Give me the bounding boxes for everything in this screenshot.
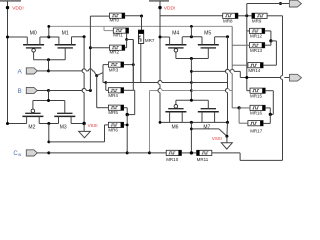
wire MR11.right to bus xyxy=(212,153,283,161)
port B xyxy=(26,87,37,93)
svg-text:MR9: MR9 xyxy=(252,19,262,24)
wire MR16.right chain xyxy=(265,108,272,116)
label MR14 xyxy=(248,68,261,73)
wire node to MR6 xyxy=(49,125,109,142)
svg-text:MR10: MR10 xyxy=(166,157,179,162)
svg-text:M6: M6 xyxy=(172,124,179,130)
transistor M0 (PMOS) xyxy=(23,37,44,60)
wire net G y=71.4 xyxy=(191,69,246,77)
label MR3 xyxy=(109,68,119,73)
label MR17 xyxy=(250,128,263,133)
svg-text:MR14: MR14 xyxy=(248,68,261,73)
transistor M4 (PMOS) xyxy=(165,37,186,59)
svg-text:M0: M0 xyxy=(30,30,37,36)
wire top rail stub left xyxy=(0,0,21,2)
memristor MR3 xyxy=(108,62,123,67)
wire M3.drain to VSS xyxy=(71,122,86,125)
memristor MR17 xyxy=(248,121,263,126)
transistor M3 xyxy=(54,101,75,124)
wire riser x=232.2 xyxy=(230,26,239,108)
label MR16 xyxy=(250,111,263,116)
svg-text:MR11: MR11 xyxy=(197,157,209,162)
svg-text:VDD!: VDD! xyxy=(12,6,23,12)
svg-text:MR5: MR5 xyxy=(108,110,118,115)
label MR0 xyxy=(110,18,120,23)
wire VDD to M4 source xyxy=(159,36,170,39)
memristor MR6 xyxy=(108,122,123,127)
wire M0.drain-M1.source staple xyxy=(40,26,59,38)
ground symbol left xyxy=(79,124,91,138)
wire M5.drain to V-right xyxy=(215,35,229,38)
node VDD! junction left xyxy=(6,6,9,9)
wire M5 drain vertical x=227.5 xyxy=(226,37,228,123)
svg-text:MR16: MR16 xyxy=(250,111,263,116)
node VDD! junction middle xyxy=(158,6,161,9)
memristor MR4 xyxy=(108,88,123,93)
wire input A xyxy=(37,69,98,77)
svg-text:MR6: MR6 xyxy=(108,127,118,132)
wire MR14 feed xyxy=(232,64,248,66)
wire MR17.right chain xyxy=(263,114,270,123)
memristor MR0 xyxy=(110,13,125,18)
wire VDD to M0 source xyxy=(6,36,27,39)
wire MR12.right chain xyxy=(265,31,273,43)
memristor MR16 xyxy=(250,105,265,110)
label M6 xyxy=(172,124,179,130)
svg-text:MR7: MR7 xyxy=(145,38,155,43)
wire M2.source to rail xyxy=(6,122,27,125)
node MR8/MR9 junction xyxy=(238,14,252,17)
label M4 xyxy=(172,30,179,36)
wire input CIN xyxy=(37,151,166,154)
svg-text:A: A xyxy=(17,68,22,75)
transistor M7 xyxy=(198,100,219,122)
net label VSS! left xyxy=(88,123,98,128)
wire MR7 bottom x=140.8 xyxy=(140,44,142,83)
port output 2 xyxy=(290,74,302,81)
svg-text:M4: M4 xyxy=(172,30,179,36)
wire node V2 vertical x=90.4 xyxy=(90,16,109,90)
ground symbol middle xyxy=(221,122,232,149)
wire A to MR3 riser xyxy=(97,65,109,83)
label M1 xyxy=(62,30,69,36)
label MR13 xyxy=(250,48,263,53)
node V2-MR2 junction xyxy=(89,46,110,49)
svg-text:MR0: MR0 xyxy=(110,18,120,23)
transistor M1 xyxy=(55,37,76,60)
wire VDD to MR8 xyxy=(160,15,223,17)
memristor MR14 xyxy=(248,63,263,68)
wire M2/M3 gate tie xyxy=(33,99,65,102)
wire A to MR5 riser xyxy=(97,76,109,108)
memristor MR1 xyxy=(113,28,128,33)
svg-text:MR12: MR12 xyxy=(250,34,263,39)
label M3 xyxy=(60,125,67,131)
label M7 xyxy=(203,124,210,130)
memristor MR11 xyxy=(197,150,212,155)
transistor M6 (PMOS) xyxy=(165,100,186,122)
svg-text:MR13: MR13 xyxy=(250,48,263,53)
svg-text:MR3: MR3 xyxy=(109,68,119,73)
port output 1 xyxy=(289,0,301,7)
wire output line y=77.5 xyxy=(245,76,289,79)
wire MR12-14 link xyxy=(263,41,276,65)
label MR11 xyxy=(197,157,209,162)
label M5 xyxy=(204,30,211,36)
wire net C y=90.5 east xyxy=(150,89,233,92)
label MR15 xyxy=(250,93,263,98)
wire M4/M5 gate tie xyxy=(176,57,208,60)
wire MR13 feed xyxy=(232,44,249,46)
wire M6/M7 gate tie xyxy=(176,99,208,102)
net label VDD! left xyxy=(12,6,23,12)
wire node V1 vertical x=84.1 xyxy=(82,37,84,124)
node MR10/MR11 junction xyxy=(181,151,196,154)
wire MR13.right chain xyxy=(265,41,271,45)
svg-text:M2: M2 xyxy=(28,125,35,131)
node MR16 feed junction xyxy=(238,106,251,109)
wire right feed x=246.8 xyxy=(247,16,250,91)
svg-text:M3: M3 xyxy=(60,125,67,131)
svg-text:VSS!: VSS! xyxy=(212,136,222,141)
memristor MR13 xyxy=(250,43,265,48)
svg-text:MR4: MR4 xyxy=(108,93,118,98)
wire net G y=82.5 xyxy=(103,81,228,84)
wire gate bus x=191.4 xyxy=(190,59,193,101)
transistor M5 xyxy=(198,37,219,59)
wire B/CIN link x=149.5 xyxy=(149,91,151,153)
svg-text:M7: M7 xyxy=(203,124,210,130)
label B xyxy=(17,88,21,95)
label MR7 xyxy=(145,38,155,43)
svg-text:MR15: MR15 xyxy=(250,93,263,98)
wire top rail stub middle xyxy=(149,0,169,2)
wire MR0 to MR7 bus xyxy=(125,15,143,31)
svg-text:VDD!: VDD! xyxy=(164,6,175,12)
label M0 xyxy=(30,30,37,36)
wire M1.drain to node V1 xyxy=(72,35,86,38)
wire mid node riser to MR10/11 xyxy=(190,122,193,152)
port CIN xyxy=(26,150,37,156)
label M2 xyxy=(28,125,35,131)
memristor MR2 xyxy=(110,45,125,50)
wire mid node to VSS stem xyxy=(191,129,227,136)
port A xyxy=(26,68,37,74)
wire node N1 y=26.4 xyxy=(47,25,232,31)
wire VDD rail middle (x=160) xyxy=(158,1,160,123)
wire MR9.right to bus xyxy=(267,15,282,17)
svg-text:IN: IN xyxy=(18,153,22,157)
label MR9 xyxy=(252,19,262,24)
label MR6 xyxy=(108,127,118,132)
svg-text:MR1: MR1 xyxy=(113,33,123,38)
wire MR4 feed drop xyxy=(106,83,109,91)
net label VDD! middle xyxy=(164,6,175,12)
wire MR5.right chain xyxy=(124,108,129,117)
label CIN xyxy=(13,151,21,157)
wire M6/M7 source-drain rail xyxy=(159,121,229,124)
svg-text:MR17: MR17 xyxy=(250,128,263,133)
label MR12 xyxy=(250,34,263,39)
svg-text:VSS!: VSS! xyxy=(88,123,98,128)
wire MR3.right xyxy=(124,63,135,66)
memristor MR15 xyxy=(250,88,265,93)
memristor MR10 xyxy=(166,150,181,155)
wire input B xyxy=(37,89,92,93)
wire B riser to M2/M3 gates xyxy=(48,91,50,101)
memristor MR12 xyxy=(250,28,265,33)
wire MR2.right riser xyxy=(125,40,134,91)
wire node N1 descender x=133.3 xyxy=(132,40,134,83)
label A xyxy=(17,68,22,75)
label MR10 xyxy=(166,157,179,162)
wire MR17 feed xyxy=(239,108,248,123)
wire M0/M1 gate tie xyxy=(34,58,66,71)
label MR1 xyxy=(113,33,123,38)
net label VSS! middle xyxy=(212,136,222,141)
svg-text:M5: M5 xyxy=(204,30,211,36)
wire M2.drain-M3.source staple xyxy=(39,122,58,143)
wire output bus x=282.5 xyxy=(279,2,283,160)
memristor MR8 xyxy=(223,13,238,18)
label MR8 xyxy=(223,19,233,24)
wire to output port 1 xyxy=(247,4,290,16)
wire M4.drain-M5.source staple xyxy=(182,26,202,38)
label MR4 xyxy=(108,93,118,98)
memristor MR9 xyxy=(252,13,267,18)
wire MR15.right chain xyxy=(265,91,273,115)
memristor MR7 xyxy=(138,30,144,43)
svg-text:MR2: MR2 xyxy=(110,50,120,55)
wire MR6.right chain xyxy=(124,115,129,153)
label MR2 xyxy=(110,50,120,55)
label MR5 xyxy=(108,110,118,115)
memristor MR5 xyxy=(108,105,123,110)
svg-text:B: B xyxy=(17,88,21,95)
transistor M2 (PMOS) xyxy=(22,101,43,124)
wire MR4.right chain xyxy=(124,90,135,114)
wire MR1.right stub xyxy=(125,33,128,41)
svg-text:M1: M1 xyxy=(62,30,69,36)
wire VDD rail left (x=7.5) xyxy=(7,1,9,124)
svg-text:MR8: MR8 xyxy=(223,19,233,24)
